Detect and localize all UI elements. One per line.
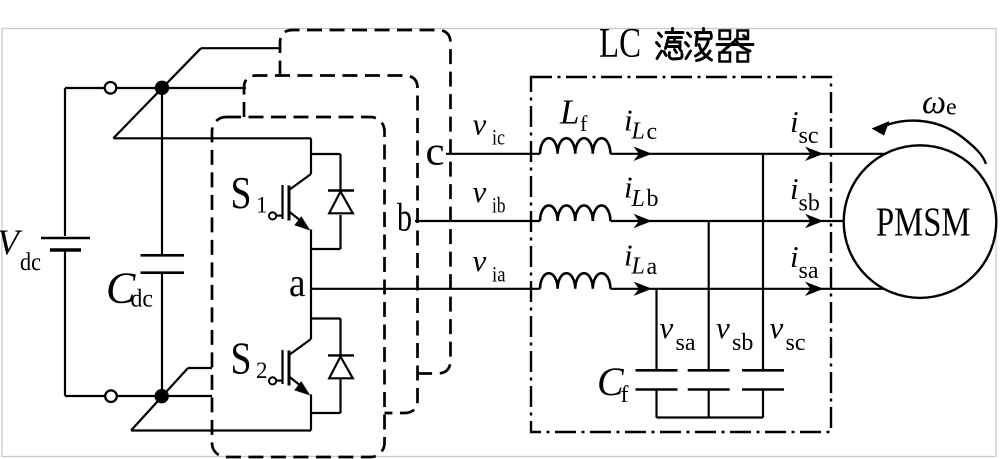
svg-text:v: v	[473, 106, 487, 141]
svg-text:sc: sc	[786, 330, 806, 356]
svg-text:v: v	[660, 310, 674, 345]
svg-text:a: a	[289, 260, 306, 305]
svg-text:ic: ic	[492, 125, 505, 150]
svg-text:sa: sa	[799, 258, 819, 284]
svg-text:i: i	[790, 239, 799, 274]
svg-text:L: L	[631, 119, 645, 145]
svg-text:ia: ia	[492, 261, 506, 286]
svg-text:2: 2	[256, 358, 268, 383]
svg-text:L: L	[559, 92, 579, 131]
svg-text:sb: sb	[732, 330, 753, 356]
svg-text:f: f	[621, 382, 629, 408]
svg-text:v: v	[716, 310, 730, 345]
svg-text:i: i	[790, 104, 799, 139]
svg-text:a: a	[647, 254, 658, 280]
svg-text:e: e	[946, 95, 957, 121]
svg-text:PMSM: PMSM	[876, 198, 971, 244]
svg-text:LC: LC	[599, 21, 641, 67]
svg-text:v: v	[770, 310, 784, 345]
svg-text:v: v	[473, 243, 487, 278]
svg-text:L: L	[631, 186, 645, 212]
svg-text:sa: sa	[676, 330, 696, 356]
svg-text:i: i	[790, 171, 799, 206]
svg-text:b: b	[647, 186, 659, 212]
svg-text:dc: dc	[131, 286, 154, 313]
svg-text:ib: ib	[492, 192, 506, 217]
svg-text:sb: sb	[799, 190, 820, 216]
svg-text:b: b	[397, 195, 412, 240]
svg-text:c: c	[426, 129, 445, 174]
svg-text:c: c	[647, 119, 658, 145]
svg-text:S: S	[231, 168, 252, 218]
svg-text:L: L	[631, 254, 645, 280]
svg-text:v: v	[473, 174, 487, 209]
svg-text:f: f	[580, 111, 588, 136]
svg-text:S: S	[231, 334, 252, 384]
svg-text:dc: dc	[20, 249, 41, 276]
svg-text:sc: sc	[799, 123, 819, 149]
svg-text:1: 1	[256, 193, 268, 218]
svg-text:ω: ω	[922, 84, 946, 121]
